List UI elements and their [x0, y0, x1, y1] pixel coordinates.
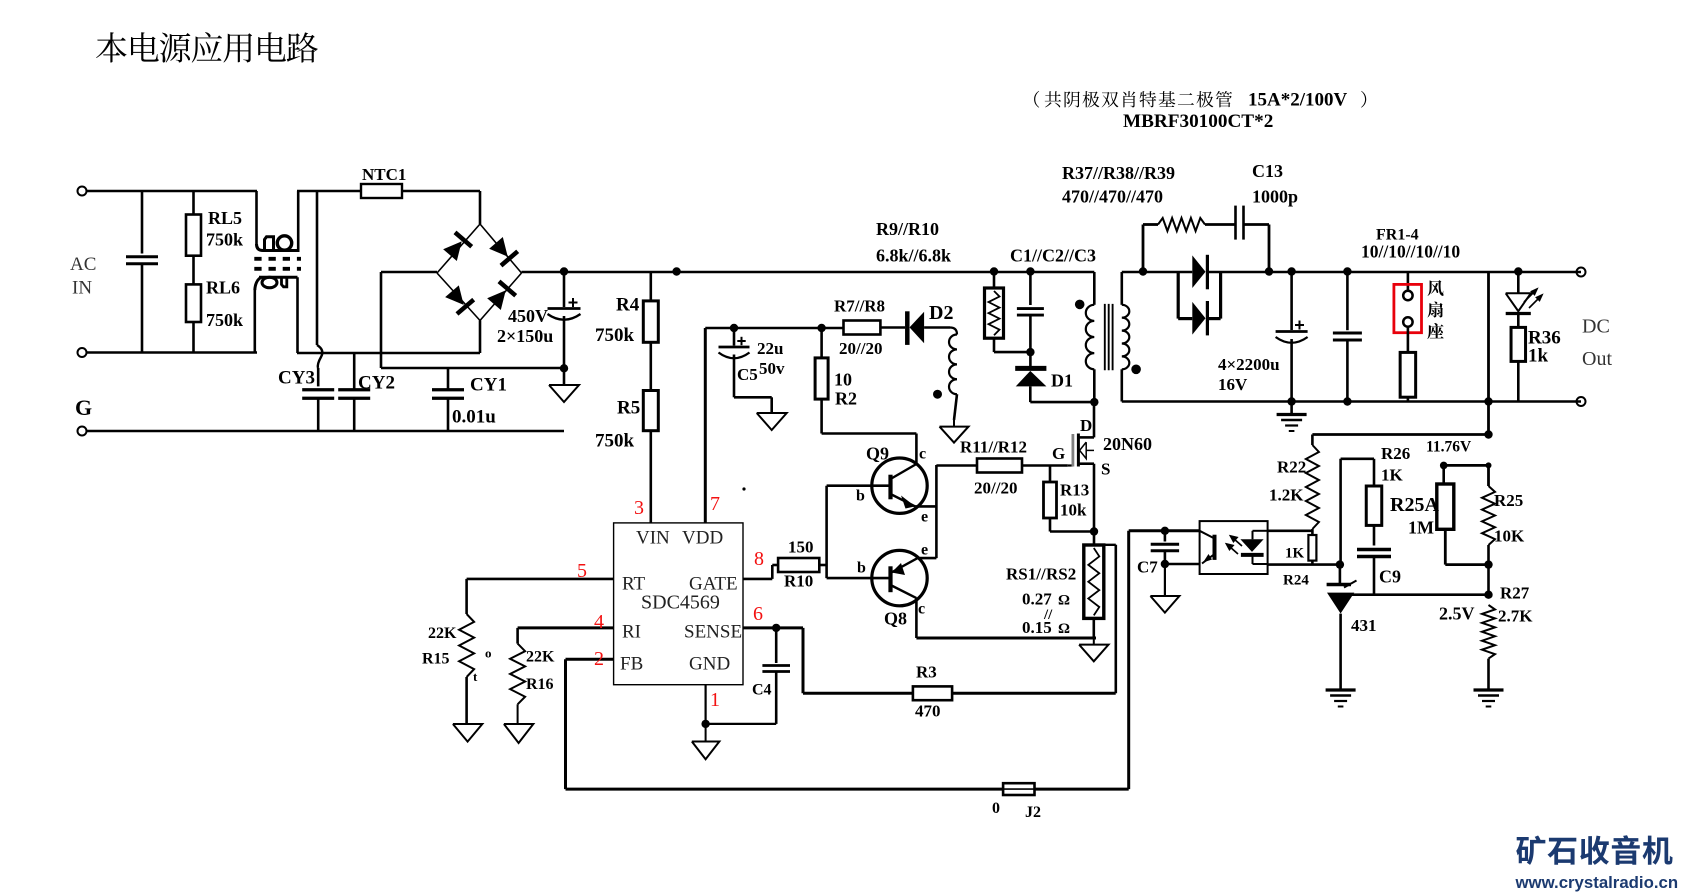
- svg-text:R5: R5: [617, 398, 640, 419]
- svg-text:11.76V: 11.76V: [1426, 439, 1472, 456]
- svg-text:R16: R16: [526, 676, 554, 693]
- svg-text:RL5: RL5: [208, 208, 242, 228]
- svg-text:0.27: 0.27: [1022, 590, 1052, 609]
- svg-text:C13: C13: [1252, 161, 1283, 181]
- svg-text:22K: 22K: [526, 649, 555, 666]
- svg-text:R22: R22: [1277, 458, 1306, 477]
- svg-text:VIN: VIN: [636, 528, 670, 549]
- svg-text:RI: RI: [622, 622, 641, 643]
- svg-text:R9//R10: R9//R10: [876, 219, 939, 239]
- svg-text:R25A: R25A: [1390, 494, 1439, 516]
- svg-text:C9: C9: [1379, 567, 1401, 587]
- svg-text:1K: 1K: [1285, 546, 1305, 562]
- svg-text:1.2K: 1.2K: [1269, 486, 1304, 505]
- svg-text:R3: R3: [916, 663, 937, 682]
- svg-text:RL6: RL6: [206, 278, 240, 298]
- svg-text:5: 5: [577, 560, 587, 582]
- svg-text:R2: R2: [835, 389, 857, 409]
- svg-text:6.8k//6.8k: 6.8k//6.8k: [876, 246, 951, 266]
- svg-text:470: 470: [915, 702, 941, 721]
- svg-text:2.7K: 2.7K: [1498, 607, 1533, 626]
- svg-text:R27: R27: [1500, 584, 1530, 603]
- svg-text:FB: FB: [620, 654, 643, 675]
- svg-text:b: b: [856, 488, 865, 505]
- svg-text:SDC4569: SDC4569: [641, 592, 720, 614]
- svg-text:Q9: Q9: [866, 444, 889, 464]
- svg-text:C1//C2//C3: C1//C2//C3: [1010, 246, 1096, 266]
- svg-text:C4: C4: [752, 682, 772, 699]
- svg-text:D2: D2: [929, 302, 953, 324]
- svg-text:R7//R8: R7//R8: [834, 297, 885, 316]
- svg-text:Ω: Ω: [1058, 621, 1070, 637]
- svg-text:MBRF30100CT*2: MBRF30100CT*2: [1123, 111, 1273, 132]
- svg-text:20N60: 20N60: [1103, 434, 1152, 454]
- svg-text:R25: R25: [1494, 491, 1523, 510]
- svg-text:22K: 22K: [428, 625, 457, 642]
- svg-text:750k: 750k: [595, 431, 635, 452]
- svg-text:20//20: 20//20: [839, 339, 882, 358]
- svg-text:RS1//: RS1//: [1006, 565, 1046, 584]
- svg-text:c: c: [918, 601, 925, 618]
- svg-text:G: G: [1052, 444, 1065, 463]
- svg-text:CY1: CY1: [470, 375, 507, 396]
- svg-text:SENSE: SENSE: [684, 622, 742, 643]
- svg-text:50v: 50v: [759, 359, 785, 378]
- svg-text:10//10//10//10: 10//10//10//10: [1361, 242, 1460, 262]
- svg-text:16V: 16V: [1218, 375, 1248, 394]
- svg-text:1000p: 1000p: [1252, 187, 1298, 207]
- svg-text:t: t: [473, 669, 478, 684]
- svg-text:R15: R15: [422, 651, 450, 668]
- svg-text:431: 431: [1351, 616, 1377, 635]
- svg-text:2×150u: 2×150u: [497, 326, 553, 346]
- svg-text:DC: DC: [1582, 316, 1610, 338]
- svg-text:D: D: [1080, 416, 1092, 435]
- svg-text:e: e: [921, 509, 928, 526]
- svg-text:8: 8: [754, 548, 764, 570]
- svg-text:0: 0: [992, 800, 1000, 817]
- svg-text:450V: 450V: [508, 306, 548, 326]
- svg-text:IN: IN: [72, 278, 92, 299]
- svg-text:10K: 10K: [1494, 527, 1525, 546]
- svg-text:o: o: [485, 646, 492, 661]
- svg-text:1M: 1M: [1408, 518, 1434, 538]
- svg-text:4×2200u: 4×2200u: [1218, 355, 1280, 374]
- svg-text:1k: 1k: [1528, 346, 1549, 367]
- svg-text:1: 1: [710, 689, 720, 711]
- svg-text:6: 6: [753, 603, 763, 625]
- svg-text:RS2: RS2: [1046, 565, 1076, 584]
- svg-text:NTC1: NTC1: [362, 165, 406, 184]
- svg-text:R37//R38//R39: R37//R38//R39: [1062, 163, 1175, 183]
- svg-text:AC: AC: [70, 254, 96, 275]
- svg-text:Out: Out: [1582, 348, 1612, 370]
- svg-text:22u: 22u: [757, 339, 783, 358]
- svg-text:2.5V: 2.5V: [1439, 604, 1475, 624]
- svg-text:J2: J2: [1025, 804, 1041, 821]
- svg-text:R11//R12: R11//R12: [960, 438, 1027, 457]
- svg-text:S: S: [1101, 460, 1110, 479]
- svg-text:Q8: Q8: [884, 609, 907, 629]
- svg-text:2: 2: [594, 648, 604, 670]
- svg-text:R26: R26: [1381, 444, 1410, 463]
- svg-text:1K: 1K: [1381, 466, 1404, 485]
- svg-text:750k: 750k: [206, 230, 243, 250]
- svg-text:C7: C7: [1137, 558, 1158, 577]
- svg-text:750k: 750k: [206, 310, 243, 330]
- svg-text:470//470//470: 470//470//470: [1062, 187, 1163, 207]
- svg-text:3: 3: [634, 497, 644, 519]
- svg-text:7: 7: [710, 493, 720, 515]
- svg-text:20//20: 20//20: [974, 479, 1017, 498]
- svg-text:10k: 10k: [1060, 501, 1087, 520]
- svg-text:R24: R24: [1283, 573, 1309, 589]
- svg-text:G: G: [75, 395, 92, 420]
- svg-text:GND: GND: [689, 654, 730, 675]
- svg-text:R10: R10: [784, 572, 813, 591]
- svg-text:CY2: CY2: [358, 373, 395, 394]
- svg-text:e: e: [921, 542, 928, 559]
- svg-text:R4: R4: [616, 295, 640, 316]
- svg-text:150: 150: [788, 538, 814, 557]
- svg-text:4: 4: [594, 611, 604, 633]
- svg-text:15A*2/100V: 15A*2/100V: [1248, 90, 1348, 111]
- svg-text:0.01u: 0.01u: [452, 407, 496, 428]
- svg-text:Ω: Ω: [1058, 593, 1070, 609]
- svg-text:b: b: [857, 560, 866, 577]
- svg-text:www.crystalradio.cn: www.crystalradio.cn: [1515, 873, 1679, 892]
- svg-text:D1: D1: [1051, 371, 1073, 391]
- svg-text:c: c: [919, 446, 926, 463]
- svg-text:R13: R13: [1060, 481, 1089, 500]
- svg-text:VDD: VDD: [682, 528, 723, 549]
- svg-text:0.15: 0.15: [1022, 618, 1052, 637]
- svg-text:10: 10: [834, 370, 852, 390]
- svg-text:CY3: CY3: [278, 368, 315, 389]
- svg-text:C5: C5: [737, 365, 758, 384]
- svg-text:750k: 750k: [595, 325, 635, 346]
